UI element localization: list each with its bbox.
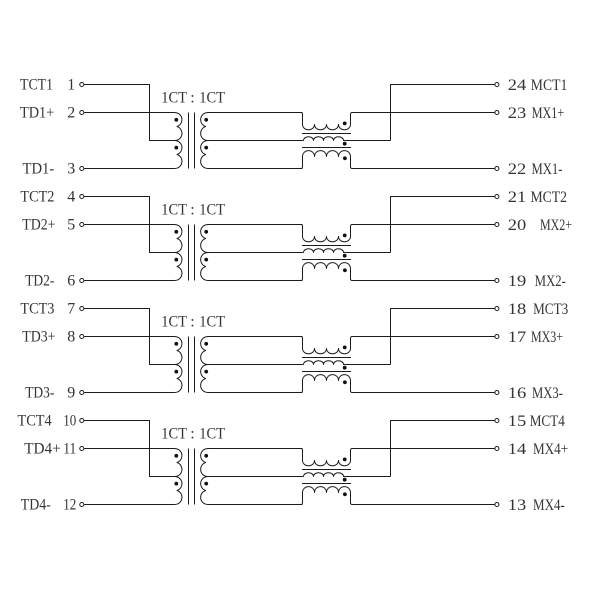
pin 1 terminal (TCT1) [80, 82, 84, 86]
svg-text:MCT1: MCT1 [531, 77, 568, 94]
common-mode choke L3 bottom winding (MX3- path, wire to pin 16) [301, 375, 495, 393]
svg-text:6: 6 [67, 273, 75, 290]
polarity dot L1 middle winding [343, 142, 347, 146]
polarity dot T1 secondary bottom [204, 146, 208, 150]
svg-text:4: 4 [67, 189, 75, 206]
choke L2 core line top [302, 245, 351, 247]
transformer T4 primary winding top half (wire from pin 11) [84, 448, 182, 476]
svg-text:17: 17 [508, 329, 527, 346]
pin 10 terminal (TCT4) [80, 418, 84, 422]
common-mode choke L4 middle winding (center-tap path to junction) [304, 473, 391, 477]
common-mode choke L3 top winding (MX3+ path, wire to pin 17) [301, 337, 495, 354]
transformer T3 secondary winding top half (lead to choke) [201, 336, 304, 364]
svg-text:22: 22 [508, 161, 527, 178]
pin 24 terminal (MCT1) [495, 82, 499, 86]
svg-text::: : [190, 313, 194, 330]
pin 9 terminal (TD3-) [80, 390, 84, 394]
transformer T3 core line right [194, 337, 196, 393]
svg-text:TD4+: TD4+ [24, 441, 61, 458]
pin 5 terminal (TD2+) [80, 222, 84, 226]
transformer T3 primary winding bottom half (wire to pin 9) [84, 364, 182, 392]
svg-text:TD3+: TD3+ [22, 329, 55, 346]
svg-text:3: 3 [67, 161, 75, 178]
common-mode choke L2 middle winding (center-tap path to junction) [304, 249, 391, 253]
wire: choke center tap up to pin 15 (MCT4) [391, 421, 495, 477]
polarity dot L4 middle winding [343, 478, 347, 482]
svg-text:TCT4: TCT4 [18, 413, 52, 430]
svg-text:MCT4: MCT4 [530, 413, 565, 430]
polarity dot T3 secondary bottom [204, 370, 208, 374]
polarity dot T2 secondary bottom [204, 258, 208, 262]
common-mode choke L4 bottom winding (MX4- path, wire to pin 13) [301, 487, 495, 505]
polarity dot T2 secondary top [204, 230, 208, 234]
svg-text:MCT2: MCT2 [531, 189, 568, 206]
svg-text:TCT3: TCT3 [20, 301, 54, 318]
polarity dot T1 primary top [174, 118, 178, 122]
polarity dot L1 bottom winding [343, 156, 347, 160]
polarity dot T3 secondary top [204, 342, 208, 346]
svg-text:23: 23 [508, 105, 527, 122]
pin 4 terminal (TCT2) [80, 194, 84, 198]
pin 23 terminal (MX1+) [495, 110, 499, 114]
svg-text:MX4+: MX4+ [533, 441, 568, 458]
transformer T4 primary winding bottom half (wire to pin 12) [84, 476, 182, 504]
wire: pin 10 to T4 primary center tap [84, 421, 174, 477]
transformer T3 core line left [188, 337, 190, 393]
svg-text:1CT: 1CT [161, 89, 187, 106]
pin 2 terminal (TD1+) [80, 110, 84, 114]
svg-text:2: 2 [67, 105, 75, 122]
transformer T2 secondary winding bottom half (lead to choke) [201, 252, 303, 280]
svg-text:1CT: 1CT [161, 201, 187, 218]
transformer T4 secondary winding bottom half (lead to choke) [201, 476, 303, 504]
polarity dot L4 top winding [343, 458, 347, 462]
polarity dot L1 top winding [343, 122, 347, 126]
svg-text:MX3+: MX3+ [531, 329, 563, 346]
polarity dot L4 bottom winding [343, 492, 347, 496]
pin 22 terminal (MX1-) [495, 166, 499, 170]
pin 11 terminal (TD4+) [80, 446, 84, 450]
polarity dot L2 bottom winding [343, 268, 347, 272]
pin 7 terminal (TCT3) [80, 306, 84, 310]
svg-text:1: 1 [67, 77, 75, 94]
wire: pin 1 to T1 primary center tap [84, 85, 174, 141]
wire: pin 4 to T2 primary center tap [84, 197, 174, 253]
wire: choke center tap up to pin 18 (MCT3) [391, 309, 495, 365]
svg-text:14: 14 [508, 441, 527, 458]
polarity dot T1 secondary top [204, 118, 208, 122]
svg-text:MX1+: MX1+ [532, 105, 565, 122]
transformer T4 core line right [194, 449, 196, 505]
pin 16 terminal (MX3-) [495, 390, 499, 394]
polarity dot T1 primary bottom [174, 146, 178, 150]
choke L3 core line bottom [302, 371, 351, 373]
svg-text:9: 9 [67, 385, 75, 402]
svg-text:MX4-: MX4- [533, 497, 565, 514]
pin 15 terminal (MCT4) [495, 418, 499, 422]
common-mode choke L3 middle winding (center-tap path to junction) [304, 361, 391, 365]
transformer T1 secondary winding bottom half (lead to choke) [201, 140, 303, 168]
transformer T4 core line left [188, 449, 190, 505]
transformer T1 secondary winding top half (lead to choke) [201, 112, 304, 140]
pin 8 terminal (TD3+) [80, 334, 84, 338]
polarity dot L2 top winding [343, 234, 347, 238]
wire: choke center tap up to pin 24 (MCT1) [391, 85, 495, 141]
common-mode choke L4 top winding (MX4+ path, wire to pin 14) [301, 449, 495, 466]
svg-text:MX2-: MX2- [535, 273, 566, 290]
svg-text:TD3-: TD3- [25, 385, 54, 402]
polarity dot L2 middle winding [343, 254, 347, 258]
polarity dot T4 primary bottom [174, 482, 178, 486]
transformer T1 primary winding top half (wire from pin 2) [84, 112, 182, 140]
svg-text:TCT1: TCT1 [20, 77, 53, 94]
choke L1 core line bottom [302, 147, 351, 149]
svg-text::: : [190, 201, 194, 218]
svg-text:16: 16 [508, 385, 527, 402]
svg-text::: : [190, 89, 194, 106]
svg-text:1CT: 1CT [199, 313, 225, 330]
common-mode choke L1 middle winding (center-tap path to junction) [304, 137, 391, 141]
svg-text:TD1+: TD1+ [20, 105, 54, 122]
pin 18 terminal (MCT3) [495, 306, 499, 310]
common-mode choke L1 top winding (MX1+ path, wire to pin 23) [301, 113, 495, 130]
choke L4 core line bottom [302, 483, 351, 485]
wire: pin 7 to T3 primary center tap [84, 309, 174, 365]
polarity dot T4 primary top [174, 454, 178, 458]
polarity dot L3 top winding [343, 346, 347, 350]
transformer T2 secondary winding top half (lead to choke) [201, 224, 304, 252]
svg-text:1CT: 1CT [161, 313, 187, 330]
common-mode choke L1 bottom winding (MX1- path, wire to pin 22) [301, 151, 495, 169]
choke L4 core line top [302, 469, 351, 471]
pin 12 terminal (TD4-) [80, 502, 84, 506]
transformer T2 core line right [194, 225, 196, 281]
pin 19 terminal (MX2-) [495, 278, 499, 282]
transformer T1 primary winding bottom half (wire to pin 3) [84, 140, 182, 168]
svg-text:1CT: 1CT [199, 425, 225, 442]
polarity dot T3 primary top [174, 342, 178, 346]
svg-text:MCT3: MCT3 [533, 301, 568, 318]
common-mode choke L2 top winding (MX2+ path, wire to pin 20) [301, 225, 495, 242]
transformer T3 primary winding top half (wire from pin 8) [84, 336, 182, 364]
polarity dot L3 bottom winding [343, 380, 347, 384]
pin 14 terminal (MX4+) [495, 446, 499, 450]
svg-text:10: 10 [63, 413, 76, 430]
pin 3 terminal (TD1-) [80, 166, 84, 170]
svg-text:TD2-: TD2- [25, 273, 54, 290]
choke L2 core line bottom [302, 259, 351, 261]
svg-text:MX3-: MX3- [532, 385, 563, 402]
svg-text:24: 24 [508, 77, 527, 94]
transformer T3 secondary winding bottom half (lead to choke) [201, 364, 303, 392]
svg-text:1CT: 1CT [161, 425, 187, 442]
transformer T2 primary winding top half (wire from pin 5) [84, 224, 182, 252]
pin 13 terminal (MX4-) [495, 502, 499, 506]
svg-text:TD2+: TD2+ [22, 217, 55, 234]
transformer T1 core line left [188, 113, 190, 169]
svg-text:MX2+: MX2+ [540, 217, 572, 234]
svg-text:13: 13 [508, 497, 527, 514]
pin 20 terminal (MX2+) [495, 222, 499, 226]
svg-text:15: 15 [508, 413, 527, 430]
polarity dot L3 middle winding [343, 366, 347, 370]
common-mode choke L2 bottom winding (MX2- path, wire to pin 19) [301, 263, 495, 281]
transformer T2 core line left [188, 225, 190, 281]
svg-text:19: 19 [508, 273, 527, 290]
choke L1 core line top [302, 133, 351, 135]
svg-text:TD4-: TD4- [21, 497, 51, 514]
transformer T4 secondary winding top half (lead to choke) [201, 448, 304, 476]
svg-text:11: 11 [63, 441, 76, 458]
svg-text:1CT: 1CT [199, 89, 225, 106]
svg-text:8: 8 [67, 329, 75, 346]
polarity dot T4 secondary top [204, 454, 208, 458]
svg-text::: : [190, 425, 194, 442]
svg-text:MX1-: MX1- [532, 161, 563, 178]
pin 21 terminal (MCT2) [495, 194, 499, 198]
transformer T1 core line right [194, 113, 196, 169]
svg-text:5: 5 [67, 217, 75, 234]
wire: choke center tap up to pin 21 (MCT2) [391, 197, 495, 253]
polarity dot T2 primary top [174, 230, 178, 234]
pin 6 terminal (TD2-) [80, 278, 84, 282]
svg-text:18: 18 [508, 301, 527, 318]
svg-text:12: 12 [63, 497, 76, 514]
svg-text:20: 20 [508, 217, 527, 234]
svg-text:TD1-: TD1- [23, 161, 55, 178]
svg-text:7: 7 [67, 301, 75, 318]
svg-text:21: 21 [508, 189, 527, 206]
svg-text:TCT2: TCT2 [20, 189, 54, 206]
choke L3 core line top [302, 357, 351, 359]
transformer T2 primary winding bottom half (wire to pin 6) [84, 252, 182, 280]
pin 17 terminal (MX3+) [495, 334, 499, 338]
polarity dot T3 primary bottom [174, 370, 178, 374]
polarity dot T4 secondary bottom [204, 482, 208, 486]
polarity dot T2 primary bottom [174, 258, 178, 262]
svg-text:1CT: 1CT [199, 201, 225, 218]
